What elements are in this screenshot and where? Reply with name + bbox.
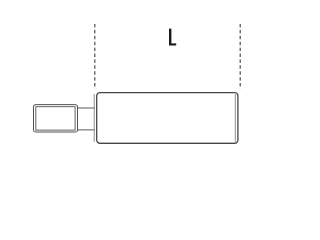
- neck bottom line: [77, 129, 95, 131]
- dimension label L: [169, 29, 176, 46]
- extension line left (dashed): [94, 24, 96, 89]
- barrel left end face line: [93, 94, 95, 142]
- barrel outline: [97, 93, 238, 144]
- barrel right chamfer line: [234, 94, 236, 142]
- neck top line: [77, 107, 95, 109]
- extension line right (dashed): [239, 24, 241, 89]
- square drive inner chamfer rectangle: [36, 107, 75, 130]
- square drive outer outline: [34, 105, 78, 132]
